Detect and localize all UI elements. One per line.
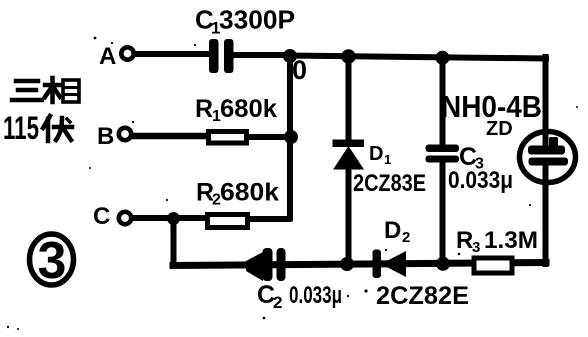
svg-text:R: R [195,95,213,123]
svg-text:D: D [369,143,383,165]
svg-text:0.033μ: 0.033μ [289,282,342,309]
svg-text:680k: 680k [220,179,279,207]
svg-text:3: 3 [38,232,67,290]
svg-text:B: B [97,123,114,150]
svg-text:2CZ83E: 2CZ83E [353,170,426,197]
svg-text:3: 3 [472,239,480,256]
svg-text:ZD: ZD [486,118,513,140]
svg-text:0: 0 [292,55,307,85]
svg-text:C: C [93,203,110,230]
svg-text:680k: 680k [220,95,277,123]
svg-text:3300P: 3300P [219,5,295,35]
svg-text:D: D [384,217,401,244]
svg-text:1.3M: 1.3M [484,227,538,254]
svg-text:115: 115 [3,110,39,146]
svg-text:2: 2 [273,293,282,312]
svg-text:0.033μ: 0.033μ [448,167,513,194]
svg-text:R: R [456,227,473,254]
svg-text:1: 1 [384,152,391,167]
svg-text:A: A [99,43,116,70]
svg-text:2CZ82E: 2CZ82E [376,282,469,310]
svg-text:2: 2 [402,229,410,246]
